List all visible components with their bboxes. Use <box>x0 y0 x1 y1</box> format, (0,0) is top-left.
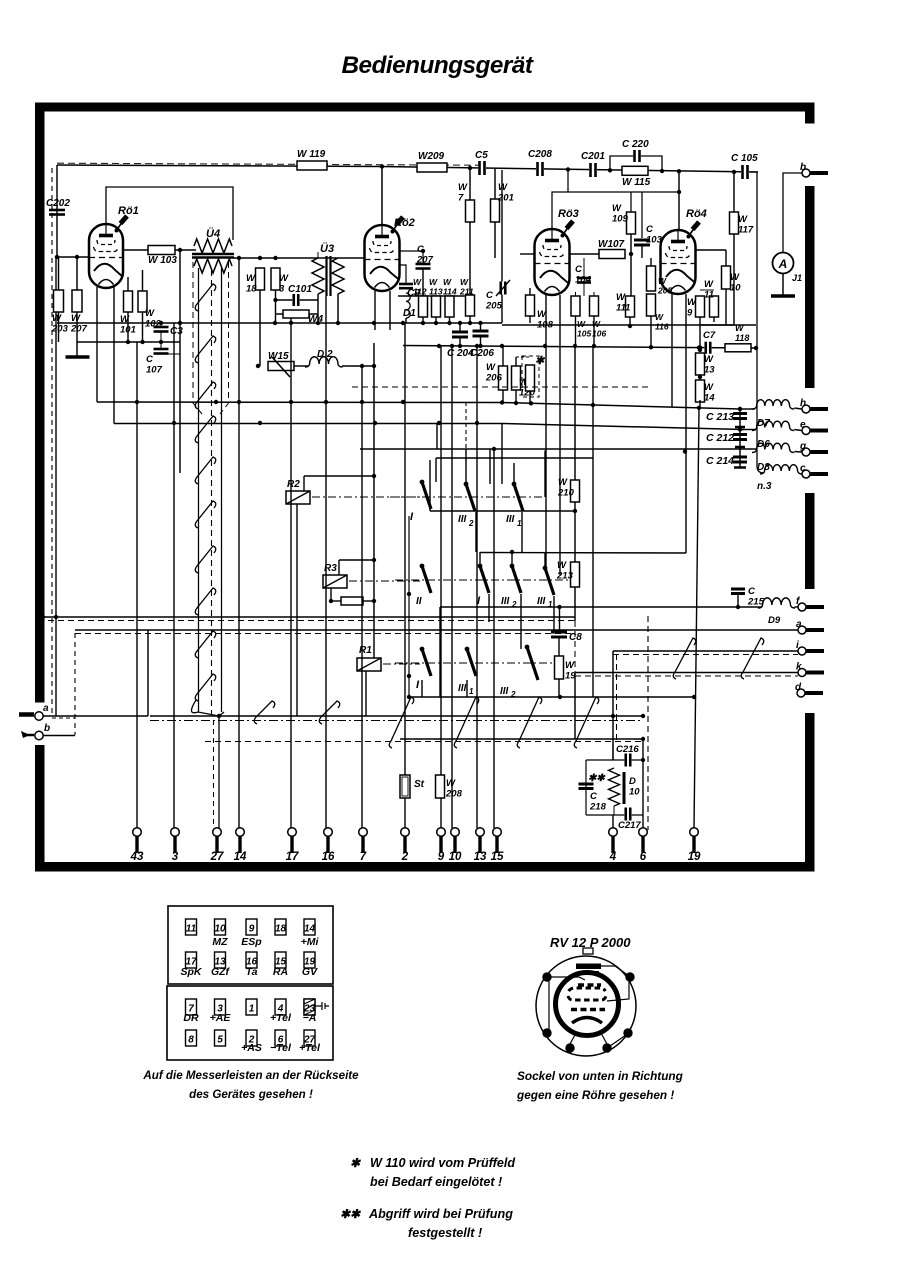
wire bus y449 <box>360 448 756 450</box>
connector row3 cells <box>186 999 197 1015</box>
svg-text:4: 4 <box>609 851 617 863</box>
resistor W101 <box>124 291 133 312</box>
svg-text:D1: D1 <box>403 308 416 319</box>
svg-text:Rö2: Rö2 <box>394 217 415 229</box>
switch I rowC <box>420 647 425 652</box>
wire riser x422b <box>421 493 423 566</box>
terminal 27 <box>213 828 222 837</box>
wire dashed enclosure top <box>352 386 648 388</box>
svg-text:gegen eine Röhre gesehen !: gegen eine Röhre gesehen ! <box>516 1088 674 1102</box>
terminal g <box>802 448 810 456</box>
resistor W207 <box>72 290 82 312</box>
wire C104 leg <box>583 258 585 278</box>
resistor W112 <box>419 296 428 317</box>
wire cathode bus Ro1 <box>77 341 180 343</box>
wire 16 line top <box>325 296 327 322</box>
svg-text:43: 43 <box>130 851 144 863</box>
node 561-607 <box>557 605 561 609</box>
wire harness y741d <box>205 741 643 743</box>
svg-text:C217: C217 <box>618 820 641 831</box>
terminal 9 <box>437 828 446 837</box>
inductor D8 <box>752 443 794 452</box>
connector row1 cells <box>186 919 197 935</box>
capacitor C217 <box>624 808 632 821</box>
fuse St inner <box>402 777 408 796</box>
capacitor C3 <box>154 326 169 329</box>
wire Rö2 grid to C207 <box>399 251 423 263</box>
svg-text:Rö3: Rö3 <box>558 208 579 220</box>
svg-text:C208: C208 <box>528 149 552 160</box>
wire terminal 6 line <box>642 741 644 828</box>
wire C204 legs <box>459 323 461 332</box>
terminal i <box>798 647 806 655</box>
junction y323 x480.5 <box>478 321 482 325</box>
wire terminal 4 line <box>612 815 614 828</box>
wire bus y423 right <box>502 424 744 430</box>
inductor D7 <box>752 400 794 409</box>
svg-text:D9: D9 <box>768 615 781 626</box>
wire terminal 10 line <box>451 346 453 828</box>
wire blade IIIx down <box>475 512 477 552</box>
cable hook y473 <box>195 457 216 484</box>
wire star bottom <box>529 391 531 403</box>
wire riser x593 <box>592 346 594 697</box>
svg-text:+Tel: +Tel <box>299 1042 321 1054</box>
wire D2 right <box>342 365 374 367</box>
capacitor mark at cell 23 <box>315 1002 329 1010</box>
wire rowB blade downs2 <box>520 594 522 649</box>
node W210 bottom <box>573 509 577 513</box>
wire Rö3 heaters <box>545 295 547 566</box>
wire W210 bottom <box>574 502 576 562</box>
wire W116 bottom <box>650 316 652 347</box>
svg-text:i: i <box>796 640 799 651</box>
border frame left bar lower <box>35 745 45 872</box>
svg-text:2: 2 <box>468 519 474 528</box>
svg-text:C101: C101 <box>288 284 312 295</box>
svg-text:C 220: C 220 <box>622 139 649 150</box>
resistor W205 <box>647 266 656 291</box>
terminal a left <box>35 712 43 720</box>
wire star down dashed <box>465 402 467 462</box>
socket grid dashes row1 <box>578 983 601 986</box>
wire harness y620 dashed <box>48 620 575 622</box>
wire W210 chain <box>574 346 576 480</box>
svg-text:III: III <box>537 596 546 607</box>
junction y323 x449.5 <box>447 321 451 325</box>
wire blade I down <box>429 509 431 511</box>
wire C220 loop <box>610 156 662 171</box>
junction y346 x452 <box>450 344 454 348</box>
wire bank riser x436 <box>435 458 437 482</box>
svg-text:16: 16 <box>322 851 335 863</box>
node y697 560 <box>558 695 562 699</box>
wire W15-D2 link <box>294 365 308 367</box>
junction y346 x545 <box>543 344 547 348</box>
wire ammeter to ground <box>782 274 784 296</box>
terminal b left <box>35 731 43 739</box>
wire riser x440 <box>439 607 441 697</box>
node W15 left <box>256 364 260 368</box>
wire W9W11 top <box>700 289 714 291</box>
svg-text:des Gerätes gesehen !: des Gerätes gesehen ! <box>189 1088 313 1101</box>
node W7 top <box>468 166 472 170</box>
svg-text:III: III <box>506 514 515 525</box>
wire rowB feed2 <box>511 552 513 566</box>
terminal e <box>802 427 810 435</box>
switch II rowB <box>420 564 425 569</box>
wire C204 leg2 <box>459 337 461 346</box>
hook ik wires 1 <box>673 638 696 679</box>
junction y346 x477 <box>475 344 479 348</box>
svg-text:13: 13 <box>474 851 487 863</box>
connector row2 cells <box>186 952 197 968</box>
resistor W13 <box>696 353 705 375</box>
wire dashed enclosure right <box>647 616 649 830</box>
svg-text:7: 7 <box>360 851 367 863</box>
svg-text:3: 3 <box>172 851 179 863</box>
harness hook x587 <box>574 697 599 748</box>
wire bus y342-2 <box>340 341 403 343</box>
switch III2 rowC <box>525 645 530 650</box>
resistor below R3 <box>341 597 363 605</box>
capacitor C9 <box>399 283 413 286</box>
wire W207 leg <box>76 257 78 290</box>
node W13 bottom <box>698 375 702 379</box>
switch III1 rowB <box>543 566 548 571</box>
wire W103 to U4 <box>175 249 196 251</box>
wire W206 top <box>502 346 504 366</box>
wire harness y630 solid <box>75 629 798 631</box>
resistor W210 <box>571 480 580 502</box>
wire W112 bottom <box>422 317 424 323</box>
svg-text:III: III <box>458 514 467 525</box>
wire W3 bottom <box>275 290 277 322</box>
transformer Ü3 core <box>325 256 327 296</box>
svg-text:10: 10 <box>214 924 226 935</box>
resistor W114 <box>445 296 454 317</box>
svg-text:15: 15 <box>491 851 504 863</box>
socket grid dashes row3 <box>568 996 606 1000</box>
wire W201 chain <box>494 168 496 258</box>
transformer Ü4 lower winding <box>194 259 232 273</box>
wire bus y326 <box>502 324 756 326</box>
node 291-322 <box>289 321 293 325</box>
wire D6-e <box>794 430 801 431</box>
svg-text:Ü4: Ü4 <box>206 227 220 240</box>
svg-text:C 212: C 212 <box>706 432 734 444</box>
wire C205 legs <box>494 258 496 281</box>
capacitor C201 <box>589 163 597 177</box>
cable hook y562 <box>195 546 216 573</box>
terminal d <box>797 689 805 697</box>
svg-text:g: g <box>799 441 806 452</box>
tube Rö1 <box>89 216 127 288</box>
wire Rö2 cathode right <box>399 265 406 283</box>
svg-text:14: 14 <box>304 924 316 935</box>
wire R1 axis <box>383 663 420 665</box>
junction y346 x651 <box>649 345 653 349</box>
node harness 643-716 <box>641 714 645 718</box>
socket top electrode bar <box>576 964 601 970</box>
capacitor C204 <box>452 331 468 334</box>
terminal h <box>802 405 810 413</box>
svg-text:C 105: C 105 <box>731 153 758 164</box>
resistor W115 <box>622 166 648 175</box>
wire step y511 <box>430 510 575 512</box>
node 374-560 <box>372 558 376 562</box>
svg-text:W 103: W 103 <box>148 255 177 266</box>
wire R2 bottom leg <box>296 504 298 716</box>
terminal 3 <box>171 828 180 837</box>
node W9 bus <box>698 345 702 349</box>
resistor W3 <box>271 268 280 290</box>
wire terminal 19 line <box>694 409 699 828</box>
svg-text:27: 27 <box>210 851 224 863</box>
node W13 top <box>698 348 702 352</box>
wire terminal 9 line <box>440 346 442 775</box>
node 143-342 <box>140 340 144 344</box>
capacitor C104 <box>577 277 591 280</box>
wire C206 legs <box>480 323 482 331</box>
wire R3 res link <box>331 600 341 602</box>
wire U3 left top <box>317 252 319 258</box>
svg-text:W15: W15 <box>268 351 289 362</box>
resistor W201 <box>491 199 500 222</box>
junction y323 x318 <box>316 321 320 325</box>
svg-text:D 2: D 2 <box>317 349 333 360</box>
junction y323 x161 <box>159 321 163 325</box>
wire R2 top leg <box>303 476 305 491</box>
resistor W18 <box>256 268 265 290</box>
wire R2 top link <box>304 475 374 477</box>
plate end <box>734 466 746 469</box>
terminal 2 <box>401 828 410 837</box>
wire i bus dash <box>613 654 798 656</box>
switch III1 rowA <box>512 482 517 487</box>
node 679-192 <box>677 190 681 194</box>
terminal 16 <box>324 828 333 837</box>
wire right rail x740 <box>739 409 741 468</box>
wire terminal 16 line <box>325 296 327 828</box>
node 740-429 <box>738 427 742 431</box>
wire D10 bottom <box>613 806 615 815</box>
terminal 6 <box>639 828 648 837</box>
node y697 409 <box>407 695 411 699</box>
wire bank riser x466 <box>465 449 467 484</box>
svg-text:C202: C202 <box>46 198 70 209</box>
transformer Ü3 left winding <box>312 258 324 294</box>
svg-text:C5: C5 <box>475 150 488 161</box>
node Ro4 top feed <box>677 169 681 173</box>
cable hook y398 <box>195 382 216 409</box>
wire dashed elbow a <box>52 717 75 719</box>
svg-text:D8: D8 <box>757 462 770 473</box>
svg-text:Rö1: Rö1 <box>118 205 139 217</box>
capacitor C214 <box>733 456 747 459</box>
wire bank riser x514 <box>513 463 515 484</box>
node 57-257 <box>55 255 59 259</box>
svg-text:GZf: GZf <box>211 966 231 978</box>
svg-text:h: h <box>800 398 806 409</box>
relay R1 <box>357 658 381 671</box>
svg-text:14: 14 <box>234 851 247 863</box>
wire grid bus Ro1 <box>57 256 89 258</box>
wire W106 bottom <box>593 316 595 347</box>
wire C3-C107 link <box>160 332 162 349</box>
svg-text:J1: J1 <box>792 273 802 283</box>
resistor W108 <box>526 295 535 316</box>
svg-text:III: III <box>500 686 509 697</box>
wire left dashed screen <box>51 168 53 717</box>
node 239-258 <box>237 256 241 260</box>
bar D10 <box>623 772 626 804</box>
hook ik wires 2 <box>741 638 764 679</box>
terminal 15 <box>493 828 502 837</box>
wire x374 relay rail <box>373 343 375 658</box>
wire D9-f <box>794 606 798 608</box>
wire n3-c <box>801 473 804 474</box>
wire W9 bottom <box>699 317 701 348</box>
junction y323 x423 <box>421 321 425 325</box>
wire top bus dashed overlay <box>57 163 478 165</box>
svg-text:11: 11 <box>186 924 197 935</box>
wire k riser solid <box>574 673 576 740</box>
resistor W211 <box>466 295 475 316</box>
node W3-C101 <box>273 298 277 302</box>
socket inner circle <box>556 973 619 1036</box>
wire D1 bottom <box>405 318 407 323</box>
wire rowB axis <box>395 579 580 581</box>
wire W105 lead <box>575 292 577 296</box>
svg-text:III: III <box>458 683 467 694</box>
capacitor C202 <box>49 209 65 212</box>
node 161-342 <box>159 340 163 344</box>
ammeter J1 <box>773 253 794 274</box>
svg-text:Bedienungsgerät: Bedienungsgerät <box>342 52 534 79</box>
wire rowB feeds <box>479 552 481 566</box>
capacitor C220 <box>633 150 641 162</box>
capacitor C212 <box>733 433 747 436</box>
cable shield dashed left <box>193 262 202 414</box>
wire top HT bus right <box>380 167 758 173</box>
wire Rö1 top cap <box>106 187 233 240</box>
tube Rö4 <box>661 222 700 294</box>
svg-text:+AS: +AS <box>241 1042 262 1054</box>
wire a riser <box>147 630 149 716</box>
border frame right bar segment 4 <box>805 713 815 872</box>
wire f bus <box>440 606 762 608</box>
socket grid dashes row4 <box>571 1008 605 1011</box>
node 275-258 <box>273 256 277 260</box>
resistor W203 <box>54 290 64 312</box>
svg-text:1: 1 <box>517 519 522 528</box>
wire W105 bottom <box>575 316 577 347</box>
wire R2 axis <box>312 496 420 498</box>
wire W18 bottom <box>259 290 261 366</box>
wire W120 top <box>515 357 517 366</box>
wire harness y617 solid <box>43 616 575 618</box>
svg-text:8: 8 <box>188 1035 194 1046</box>
capacitor C207 <box>416 263 431 266</box>
wire W107 left <box>569 253 599 255</box>
border frame top bar <box>35 103 815 112</box>
wire star link <box>516 356 530 358</box>
socket key notch <box>583 948 593 954</box>
wire box to t6 <box>642 741 644 760</box>
cable hook y352 <box>195 336 216 363</box>
terminal f <box>798 603 806 611</box>
svg-text:Ü3: Ü3 <box>320 242 334 255</box>
wire terminal 17 line <box>290 318 292 828</box>
junction y346 x439 <box>437 344 441 348</box>
wire D8-g <box>794 451 801 454</box>
node 568-167 <box>566 167 570 171</box>
wire terminal 2 line <box>404 323 406 775</box>
wire Rö4 heater right <box>685 294 687 553</box>
capacitor C215 <box>731 588 745 591</box>
wire C107 to 180 rail <box>161 353 180 355</box>
svg-text:C7: C7 <box>703 330 716 341</box>
socket top electrode bar2 <box>578 971 599 974</box>
wire bus y697 <box>409 696 694 698</box>
cable hook y300 <box>195 284 216 311</box>
terminal a right <box>798 626 806 634</box>
inductor D1 <box>406 293 410 318</box>
node C215 <box>736 605 740 609</box>
wire W102 bottom <box>142 312 144 342</box>
wire cable to terminal 27 <box>191 700 224 828</box>
wire W108 bottom <box>529 316 531 323</box>
wire Rö1 anode to W103 <box>123 249 148 251</box>
wire D6 lead <box>740 429 756 431</box>
fuse St <box>400 775 410 798</box>
wire harness y716 <box>150 715 643 717</box>
table box 2 <box>167 986 333 1060</box>
svg-text:6: 6 <box>640 851 647 863</box>
node bracket 676 <box>407 674 411 678</box>
switch III1 rowC <box>465 647 470 652</box>
svg-text:A: A <box>778 257 788 271</box>
capacitor C107 <box>154 348 169 351</box>
node frame-617 <box>41 615 45 619</box>
wire R3 res right <box>363 600 374 602</box>
svg-text:2: 2 <box>401 851 409 863</box>
svg-text:bei Bedarf eingelötet !: bei Bedarf eingelötet ! <box>370 1175 502 1189</box>
wire Rö2 heaters down <box>374 291 376 330</box>
table box 1 <box>168 906 333 984</box>
wire W206 bottom <box>502 390 504 403</box>
svg-text:c: c <box>800 463 806 474</box>
svg-text:C 214: C 214 <box>706 455 734 467</box>
harness hook x265 <box>254 701 275 724</box>
wire R3 bottom leg <box>330 588 332 601</box>
terminal 13 <box>476 828 485 837</box>
switch III2 rowA <box>464 482 469 487</box>
cable hook y647 <box>195 631 216 658</box>
wire W106 lead <box>593 292 595 296</box>
resistor W4 <box>283 310 309 318</box>
cable hook y517 <box>195 501 216 528</box>
wire rowC bottoms <box>421 680 423 697</box>
plate mid 2 <box>735 446 745 449</box>
wire terminal 14 line <box>238 258 240 828</box>
resistor D10 zigzag <box>609 768 620 806</box>
resistor W14 <box>696 380 705 402</box>
wire C104 leg2 <box>583 283 585 296</box>
node 77-257 <box>75 255 79 259</box>
inductor D9 <box>758 598 795 608</box>
